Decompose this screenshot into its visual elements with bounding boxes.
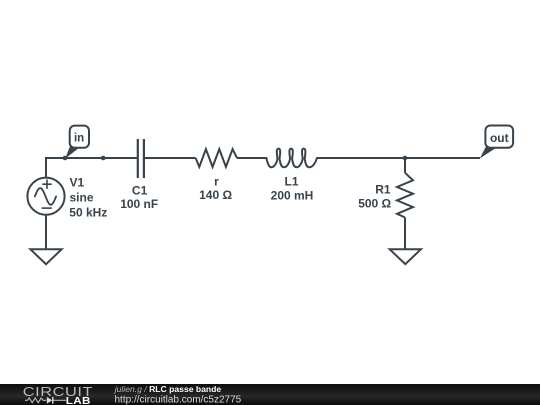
node junction dot at R1 branch — [403, 156, 408, 161]
flag out — [480, 126, 513, 159]
wire R1 to ground — [404, 218, 406, 250]
wire r to inductor L1 — [237, 157, 266, 159]
voltage source V1 — [27, 178, 64, 215]
svg-text:r: r — [214, 174, 219, 188]
svg-text:50 kHz: 50 kHz — [69, 205, 107, 219]
node junction dot at in-flag attach — [63, 156, 68, 161]
CircuitLab logo — [23, 386, 93, 405]
wire C1 to resistor r — [144, 157, 196, 159]
svg-text:in: in — [74, 132, 84, 144]
capacitor C1 — [138, 139, 144, 178]
svg-text:LAB: LAB — [66, 396, 91, 405]
svg-text:140 Ω: 140 Ω — [199, 188, 232, 202]
inductor L1 — [266, 149, 317, 168]
wire: V1 top lead up and main rail left segment to C1 — [46, 158, 138, 178]
svg-text:out: out — [490, 131, 509, 145]
svg-text:500 Ω: 500 Ω — [358, 197, 391, 211]
svg-text:R1: R1 — [375, 183, 391, 197]
svg-text:C1: C1 — [132, 184, 148, 198]
wire L1 to out flag pointer — [317, 157, 480, 159]
resistor R1 — [397, 173, 413, 218]
label V1 name and values — [69, 175, 107, 219]
svg-text:http://circuitlab.com/c5z2775: http://circuitlab.com/c5z2775 — [115, 394, 242, 405]
svg-text:L1: L1 — [284, 174, 298, 188]
svg-text:200 mH: 200 mH — [271, 188, 314, 202]
wire rail down to R1 — [404, 158, 406, 173]
ground under R1 — [390, 249, 421, 264]
svg-text:sine: sine — [70, 190, 94, 204]
resistor r — [196, 149, 237, 167]
wire V1 bottom lead to ground — [45, 215, 47, 250]
svg-text:julien.g / RLC passe bande: julien.g / RLC passe bande — [114, 384, 222, 394]
footer black bar — [0, 384, 540, 405]
node junction dot on left rail — [101, 156, 106, 161]
ground under V1 — [30, 249, 61, 264]
flag in — [65, 126, 89, 159]
svg-text:100 nF: 100 nF — [120, 197, 158, 211]
svg-text:V1: V1 — [70, 175, 85, 189]
